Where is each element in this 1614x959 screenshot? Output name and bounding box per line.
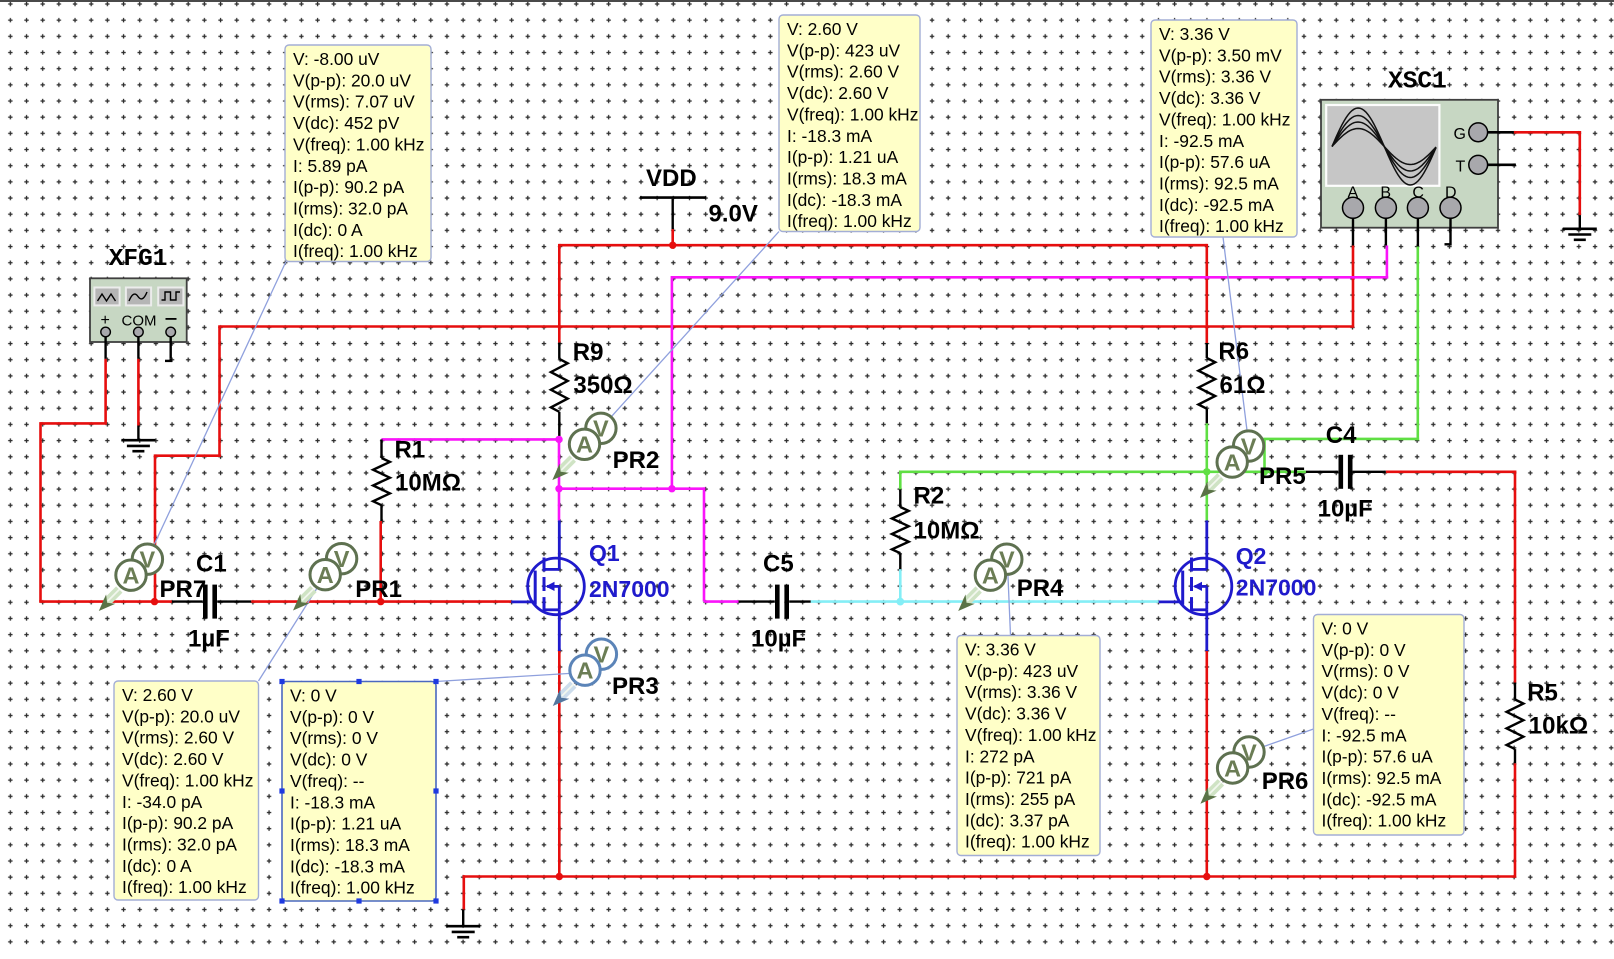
svg-text:I(freq): 1.00 kHz: I(freq): 1.00 kHz [1322,811,1447,831]
svg-text:V: 0 V: V: 0 V [1322,619,1369,639]
svg-text:V(dc): 452 pV: V(dc): 452 pV [293,113,400,133]
svg-text:I(p-p): 1.21 uA: I(p-p): 1.21 uA [787,147,899,167]
svg-text:V(rms): 0 V: V(rms): 0 V [1322,661,1410,681]
svg-text:V: 3.36 V: V: 3.36 V [1159,24,1230,44]
svg-text:Q2: Q2 [1236,543,1267,569]
svg-text:PR3: PR3 [612,673,659,700]
svg-text:B: B [1380,185,1391,202]
svg-text:I(freq): 1.00 kHz: I(freq): 1.00 kHz [122,877,247,897]
svg-text:PR7: PR7 [160,576,207,603]
svg-text:V(rms): 7.07 uV: V(rms): 7.07 uV [293,92,415,112]
svg-text:XFG1: XFG1 [109,246,168,273]
svg-text:V(freq): --: V(freq): -- [1322,704,1397,724]
svg-text:10MΩ: 10MΩ [395,470,461,497]
svg-text:10MΩ: 10MΩ [914,518,980,545]
svg-text:VDD: VDD [646,165,697,192]
svg-text:I(p-p): 57.6 uA: I(p-p): 57.6 uA [1322,747,1434,767]
svg-text:V(dc): 0 V: V(dc): 0 V [1322,683,1400,703]
svg-text:C4: C4 [1326,422,1357,449]
svg-text:I(rms): 32.0 pA: I(rms): 32.0 pA [293,198,408,218]
svg-text:I(rms): 18.3 mA: I(rms): 18.3 mA [787,168,907,188]
svg-text:I: 5.89 pA: I: 5.89 pA [293,156,368,176]
svg-text:C5: C5 [763,551,794,578]
svg-text:350Ω: 350Ω [573,372,632,399]
svg-text:V(p-p): 20.0 uV: V(p-p): 20.0 uV [293,70,411,90]
svg-text:I(dc): -92.5 mA: I(dc): -92.5 mA [1322,789,1437,809]
svg-text:V(dc): 3.36 V: V(dc): 3.36 V [965,704,1067,724]
svg-text:V(p-p): 423 uV: V(p-p): 423 uV [787,40,900,60]
svg-text:I(dc): 0 A: I(dc): 0 A [293,220,363,240]
svg-text:I(freq): 1.00 kHz: I(freq): 1.00 kHz [1159,216,1284,236]
svg-text:I(freq): 1.00 kHz: I(freq): 1.00 kHz [965,832,1090,852]
svg-text:I(freq): 1.00 kHz: I(freq): 1.00 kHz [290,878,415,898]
svg-text:V(rms): 2.60 V: V(rms): 2.60 V [122,728,234,748]
svg-text:V(freq): 1.00 kHz: V(freq): 1.00 kHz [787,104,918,124]
svg-text:I: -18.3 mA: I: -18.3 mA [787,126,872,146]
svg-text:I: -34.0 pA: I: -34.0 pA [122,792,203,812]
svg-text:A: A [576,432,593,458]
svg-text:I(p-p): 90.2 pA: I(p-p): 90.2 pA [122,813,234,833]
svg-text:I(freq): 1.00 kHz: I(freq): 1.00 kHz [787,211,912,231]
svg-text:T: T [1456,158,1466,175]
svg-text:9.0V: 9.0V [709,201,758,228]
svg-text:V(dc): 2.60 V: V(dc): 2.60 V [122,749,224,769]
svg-text:R6: R6 [1218,338,1249,365]
svg-text:V(dc): 3.36 V: V(dc): 3.36 V [1159,88,1261,108]
svg-text:I(p-p): 90.2 pA: I(p-p): 90.2 pA [293,177,405,197]
svg-text:I(rms): 92.5 mA: I(rms): 92.5 mA [1322,768,1442,788]
svg-text:PR4: PR4 [1017,575,1064,602]
svg-text:I(rms): 18.3 mA: I(rms): 18.3 mA [290,835,410,855]
svg-text:10µF: 10µF [751,625,806,652]
svg-text:I(p-p): 57.6 uA: I(p-p): 57.6 uA [1159,152,1271,172]
svg-text:I(dc): -18.3 mA: I(dc): -18.3 mA [787,190,902,210]
svg-text:A: A [1224,450,1241,476]
svg-text:PR1: PR1 [355,576,402,603]
svg-text:V(p-p): 0 V: V(p-p): 0 V [1322,640,1406,660]
svg-text:I: -92.5 mA: I: -92.5 mA [1159,131,1244,151]
svg-text:I(dc): 3.37 pA: I(dc): 3.37 pA [965,810,1070,830]
svg-text:V(p-p): 20.0 uV: V(p-p): 20.0 uV [122,706,240,726]
svg-text:V(freq): --: V(freq): -- [290,771,365,791]
svg-text:V: -8.00 uV: V: -8.00 uV [293,49,380,69]
svg-text:A: A [982,563,999,589]
svg-text:A: A [317,562,334,588]
svg-text:Q1: Q1 [589,540,620,566]
svg-text:PR2: PR2 [613,447,660,474]
svg-text:V(rms): 0 V: V(rms): 0 V [290,728,378,748]
svg-text:R5: R5 [1527,679,1558,706]
svg-text:I: -92.5 mA: I: -92.5 mA [1322,725,1407,745]
svg-text:A: A [123,563,140,589]
svg-text:XSC1: XSC1 [1388,69,1447,96]
svg-text:C1: C1 [196,551,227,578]
svg-text:A: A [1348,185,1359,202]
svg-text:V(p-p): 423 uV: V(p-p): 423 uV [965,661,1078,681]
svg-text:I(rms): 255 pA: I(rms): 255 pA [965,789,1076,809]
svg-text:I: -18.3 mA: I: -18.3 mA [290,792,375,812]
svg-text:D: D [1445,185,1457,202]
svg-text:R9: R9 [573,339,604,366]
svg-text:PR5: PR5 [1259,463,1306,490]
svg-text:V: 2.60 V: V: 2.60 V [787,19,858,39]
svg-text:I(rms): 32.0 pA: I(rms): 32.0 pA [122,834,237,854]
svg-text:V(rms): 2.60 V: V(rms): 2.60 V [787,62,899,82]
svg-text:I(p-p): 1.21 uA: I(p-p): 1.21 uA [290,814,402,834]
svg-text:2N7000: 2N7000 [1236,575,1317,601]
svg-text:V: 0 V: V: 0 V [290,686,337,706]
svg-text:2N7000: 2N7000 [589,576,670,602]
svg-text:C: C [1412,185,1424,202]
svg-text:V(freq): 1.00 kHz: V(freq): 1.00 kHz [1159,109,1290,129]
svg-text:I(freq): 1.00 kHz: I(freq): 1.00 kHz [293,241,418,261]
svg-text:V(freq): 1.00 kHz: V(freq): 1.00 kHz [965,725,1096,745]
svg-text:PR6: PR6 [1262,768,1309,795]
svg-text:V(dc): 0 V: V(dc): 0 V [290,750,368,770]
svg-text:V: 2.60 V: V: 2.60 V [122,685,193,705]
svg-text:V(rms): 3.36 V: V(rms): 3.36 V [1159,67,1271,87]
svg-text:I: 272 pA: I: 272 pA [965,746,1035,766]
svg-text:I(dc): -92.5 mA: I(dc): -92.5 mA [1159,195,1274,215]
svg-text:V(p-p): 3.50 mV: V(p-p): 3.50 mV [1159,45,1282,65]
svg-text:I(p-p): 721 pA: I(p-p): 721 pA [965,768,1072,788]
svg-text:10kΩ: 10kΩ [1529,712,1588,739]
svg-text:V(rms): 3.36 V: V(rms): 3.36 V [965,682,1077,702]
svg-text:V(dc): 2.60 V: V(dc): 2.60 V [787,83,889,103]
svg-text:I(rms): 92.5 mA: I(rms): 92.5 mA [1159,173,1279,193]
svg-text:V: 3.36 V: V: 3.36 V [965,640,1036,660]
svg-text:10µF: 10µF [1318,496,1373,523]
svg-text:V(freq): 1.00 kHz: V(freq): 1.00 kHz [293,134,424,154]
svg-text:R2: R2 [914,483,945,510]
svg-text:G: G [1454,126,1466,143]
svg-text:1µF: 1µF [188,626,230,653]
svg-text:R1: R1 [395,437,426,464]
svg-text:61Ω: 61Ω [1220,372,1266,399]
svg-text:I(dc): 0 A: I(dc): 0 A [122,856,192,876]
svg-text:A: A [577,658,594,684]
svg-text:V(freq): 1.00 kHz: V(freq): 1.00 kHz [122,770,253,790]
svg-text:A: A [1224,755,1241,781]
svg-text:I(dc): -18.3 mA: I(dc): -18.3 mA [290,856,405,876]
svg-text:V(p-p): 0 V: V(p-p): 0 V [290,707,374,727]
